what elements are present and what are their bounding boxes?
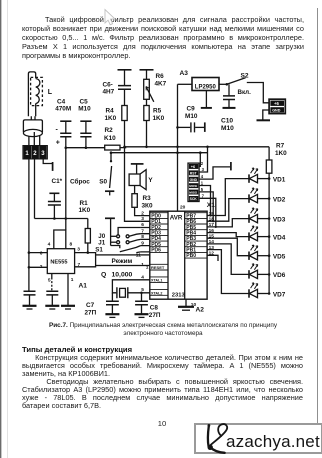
ground C3 [45, 305, 59, 307]
tap bar R6 column [140, 69, 154, 71]
quartz crystal Q wiring [112, 280, 149, 293]
svg-text:1: 1 [141, 262, 144, 268]
svg-text:PB0: PB0 [186, 253, 196, 259]
ground A1 pin1 [61, 305, 75, 307]
AVR right pin stubs [207, 216, 214, 256]
svg-text:M10: M10 [185, 113, 198, 120]
svg-text:K10: K10 [104, 135, 116, 142]
AVR RESET XTAL cells [150, 264, 168, 295]
svg-text:LP2950: LP2950 [195, 85, 217, 91]
svg-text:1K0: 1K0 [153, 115, 165, 122]
ground C8 [135, 313, 149, 315]
svg-text:+: + [56, 140, 60, 147]
svg-text:R7: R7 [276, 143, 285, 150]
LED VD1 [249, 168, 269, 183]
switch S1 [111, 246, 120, 249]
capacitor C7 [111, 293, 113, 301]
wire connector pin3 to shield tap [43, 159, 52, 164]
wire upper +6 rail [125, 146, 270, 148]
wire PB4 to VD4 [214, 233, 249, 237]
svg-text:L: L [48, 89, 53, 96]
ground C7 [105, 313, 119, 315]
left page edge shadow [0, 0, 2, 458]
svg-text:6: 6 [40, 250, 43, 256]
tap bar jumper block [105, 217, 115, 219]
svg-text:XTAL2: XTAL2 [151, 291, 162, 295]
svg-text:1: 1 [71, 277, 74, 283]
LED VD6 [249, 264, 269, 279]
wire X1 MOSI to PB7 [199, 186, 210, 216]
wire NE555 pin7 [75, 266, 96, 267]
wire PB3 to VD5 [214, 238, 249, 256]
inductor L search coil wand [28, 72, 35, 116]
svg-text:VD5: VD5 [273, 254, 286, 261]
wire left contact to PD2 [118, 228, 141, 235]
LED VD7 [249, 283, 269, 298]
svg-text:VD2: VD2 [273, 196, 286, 203]
svg-text:10: 10 [191, 302, 197, 308]
switch S2 [227, 78, 246, 85]
LED VD2 [249, 188, 269, 203]
svg-text:11: 11 [136, 253, 141, 259]
wire NE555 pin2 [29, 266, 47, 268]
svg-text:C10: C10 [221, 118, 233, 125]
svg-text:+6: +6 [274, 101, 279, 106]
resistor R2 horizontal [105, 145, 120, 150]
svg-text:GND: GND [190, 178, 198, 182]
svg-text:C6-: C6- [103, 82, 113, 89]
capacitor C5 [85, 121, 87, 133]
svg-text:VD3: VD3 [273, 216, 286, 223]
mode box Режим [96, 255, 150, 266]
svg-text:SCK: SCK [190, 197, 198, 201]
svg-text:PD6: PD6 [151, 247, 161, 253]
svg-text:8: 8 [70, 241, 73, 247]
svg-text:NE555: NE555 [50, 259, 67, 265]
wire PB0 stub [214, 255, 218, 261]
svg-text:A1: A1 [79, 283, 88, 290]
svg-text:20: 20 [180, 205, 186, 211]
capacitor C5 tap bar [80, 120, 91, 122]
wire AVR pin20 supply [177, 84, 179, 211]
capacitor C10 [228, 84, 230, 95]
wire connector pin2 down [34, 159, 36, 219]
wire NE555 pin6 [29, 252, 47, 254]
resistor R7 [268, 147, 270, 160]
svg-text:R1: R1 [80, 200, 89, 207]
svg-text:AVR: AVR [170, 215, 183, 222]
switch S0 reset [110, 153, 112, 162]
svg-text:RESET: RESET [151, 265, 165, 270]
svg-text:MOSI: MOSI [189, 184, 197, 188]
wire NE555 pin5 dashed [51, 274, 53, 278]
svg-text:1K0: 1K0 [105, 115, 117, 122]
wire PB2 to VD6 [214, 244, 249, 275]
wire AVR pin10 ground [185, 299, 187, 306]
svg-text:27П: 27П [149, 312, 161, 319]
op-amp timer A1 NE555 box [47, 249, 74, 274]
svg-text:VD4: VD4 [273, 234, 286, 241]
svg-text:3К0: 3К0 [142, 203, 153, 210]
potentiometer R6 [146, 70, 148, 80]
svg-text:2313: 2313 [172, 292, 186, 298]
svg-text:Y: Y [148, 177, 153, 184]
microcontroller A2 AVR box [150, 211, 207, 299]
resistor R1 [87, 219, 89, 229]
svg-text:C7: C7 [86, 302, 95, 309]
AVR PD pin cells [150, 213, 168, 253]
svg-text:7: 7 [202, 193, 205, 198]
svg-text:5: 5 [141, 287, 144, 293]
svg-text:Сброс: Сброс [70, 178, 90, 186]
svg-text:Q: Q [101, 272, 106, 279]
svg-text:7: 7 [78, 262, 81, 268]
wire PB7 to VD1 [214, 179, 249, 216]
resistor R4 [122, 106, 127, 121]
resistor R3 [134, 186, 136, 194]
speaker Y [136, 164, 138, 174]
regulator A3 LP2950 [192, 78, 219, 91]
capacitor C8 [141, 293, 143, 301]
ISP connector X1 [188, 163, 199, 201]
svg-text:C4: C4 [57, 99, 66, 106]
svg-text:J1: J1 [98, 240, 105, 247]
svg-text:M10: M10 [78, 106, 91, 113]
svg-text:C5: C5 [80, 99, 89, 106]
svg-text:S0: S0 [99, 179, 107, 186]
svg-text:A3: A3 [180, 70, 189, 77]
svg-text:VD7: VD7 [273, 291, 286, 298]
svg-text:2: 2 [201, 161, 204, 166]
tap bar C6 column [118, 69, 132, 71]
svg-text:C1*: C1* [52, 178, 63, 185]
svg-text:GND: GND [272, 109, 281, 113]
svg-text:470M: 470M [55, 106, 71, 113]
wire X1 GND to tap [199, 167, 230, 179]
svg-text:R4: R4 [106, 108, 115, 115]
capacitor C1 tap bar [49, 192, 59, 194]
svg-text:4: 4 [141, 275, 144, 281]
wire NE555 pin3 to mode box [75, 253, 96, 255]
svg-text:RST: RST [190, 171, 198, 175]
AVR left pin stubs [141, 216, 150, 252]
svg-text:VD1: VD1 [273, 176, 286, 183]
svg-text:R3: R3 [143, 195, 152, 202]
svg-text:2: 2 [40, 264, 43, 270]
svg-text:5: 5 [48, 278, 51, 284]
capacitor C1 [53, 193, 55, 201]
svg-text:X1: X1 [207, 202, 215, 209]
shield tap bar [52, 162, 54, 171]
capacitor C9 [178, 126, 191, 128]
wire X1 RST to rail [199, 147, 207, 172]
svg-text:Вкл.: Вкл. [238, 89, 252, 96]
svg-text:XTAL1: XTAL1 [151, 279, 162, 283]
wire X1 +6 to rail [199, 153, 200, 167]
watermark K logo [208, 424, 228, 453]
svg-text:VD6: VD6 [273, 272, 286, 279]
wire horizontal bus y218.5 [35, 218, 88, 220]
jumper J0 contacts [111, 235, 117, 237]
wire PB5 to VD3 [214, 219, 249, 227]
wire PB1 to VD7 [214, 250, 249, 294]
wire NE555 pins 4,8 supply bracket [54, 230, 66, 249]
wire X1 SCK to PB5 [199, 198, 216, 227]
wire R2 node down to PD1 [125, 147, 141, 222]
LED VD4 [249, 226, 269, 241]
resistor R5 [144, 106, 149, 121]
regulator ground leg [205, 91, 207, 108]
svg-text:C9: C9 [187, 106, 196, 113]
svg-text:Режим: Режим [112, 258, 133, 265]
wire node down to NE555 supply bracket [65, 148, 67, 230]
svg-text:S1: S1 [95, 247, 103, 254]
shielded cable cylinder [23, 120, 42, 132]
svg-text:-: - [56, 127, 59, 134]
ground C2 [23, 305, 37, 307]
svg-text:M10: M10 [221, 125, 234, 132]
svg-text:4: 4 [48, 241, 51, 247]
svg-text:R2: R2 [105, 127, 114, 134]
capacitor C4 tap bar [60, 120, 71, 122]
svg-text:S2: S2 [241, 73, 249, 80]
capacitor C4 [65, 121, 67, 133]
jumper J1 contacts [111, 241, 117, 243]
mouse cursor [105, 10, 115, 25]
LED cathode rail [268, 179, 270, 294]
svg-text:R5: R5 [153, 108, 162, 115]
connector pins 1 2 3 [23, 146, 48, 160]
capacitor C3 [46, 291, 58, 295]
capacitor C2 [24, 291, 36, 295]
coil shield dashed box [31, 77, 43, 105]
right page edge line [317, 8, 318, 424]
capacitor C6 [124, 70, 126, 85]
watermark kazachya.net [194, 423, 322, 454]
svg-text:10,000: 10,000 [112, 272, 133, 279]
svg-text:3: 3 [77, 247, 80, 253]
regulator A3 input wire [178, 83, 193, 85]
svg-text:A2: A2 [196, 307, 205, 314]
svg-text:4H7: 4H7 [103, 89, 115, 96]
LED VD5 [249, 245, 269, 260]
speaker Y tap bar [131, 163, 144, 165]
svg-text:4: 4 [201, 174, 204, 179]
svg-text:MISO: MISO [189, 191, 198, 195]
battery power connector [269, 99, 285, 113]
wire NE555 pin1 to ground [67, 274, 69, 306]
regulator output wire [219, 83, 227, 85]
svg-text:1K0: 1K0 [275, 150, 287, 157]
LED VD3 [249, 208, 269, 223]
wire connector pin1 down left rail [28, 159, 30, 292]
svg-text:4K7: 4K7 [155, 81, 167, 88]
wire PB6 to VD2 [214, 199, 249, 222]
AVR PB pin cells [185, 213, 207, 258]
svg-text:1K0: 1K0 [79, 207, 91, 214]
power connector GND side [263, 110, 269, 120]
wires coil to cable shield [31, 116, 35, 120]
wire PD6 pin11 [136, 251, 140, 254]
wire X1 MISO to PB6 [199, 192, 213, 221]
wires cable to connector [29, 132, 40, 146]
svg-text:1: 1 [146, 265, 149, 271]
svg-text:C8: C8 [150, 305, 159, 312]
wire lower rail [111, 152, 208, 154]
wire C4/C5 node to R2 [66, 147, 105, 149]
svg-text:27П: 27П [85, 310, 97, 317]
svg-text:R6: R6 [156, 73, 165, 80]
coil L winding bumps [36, 79, 40, 104]
